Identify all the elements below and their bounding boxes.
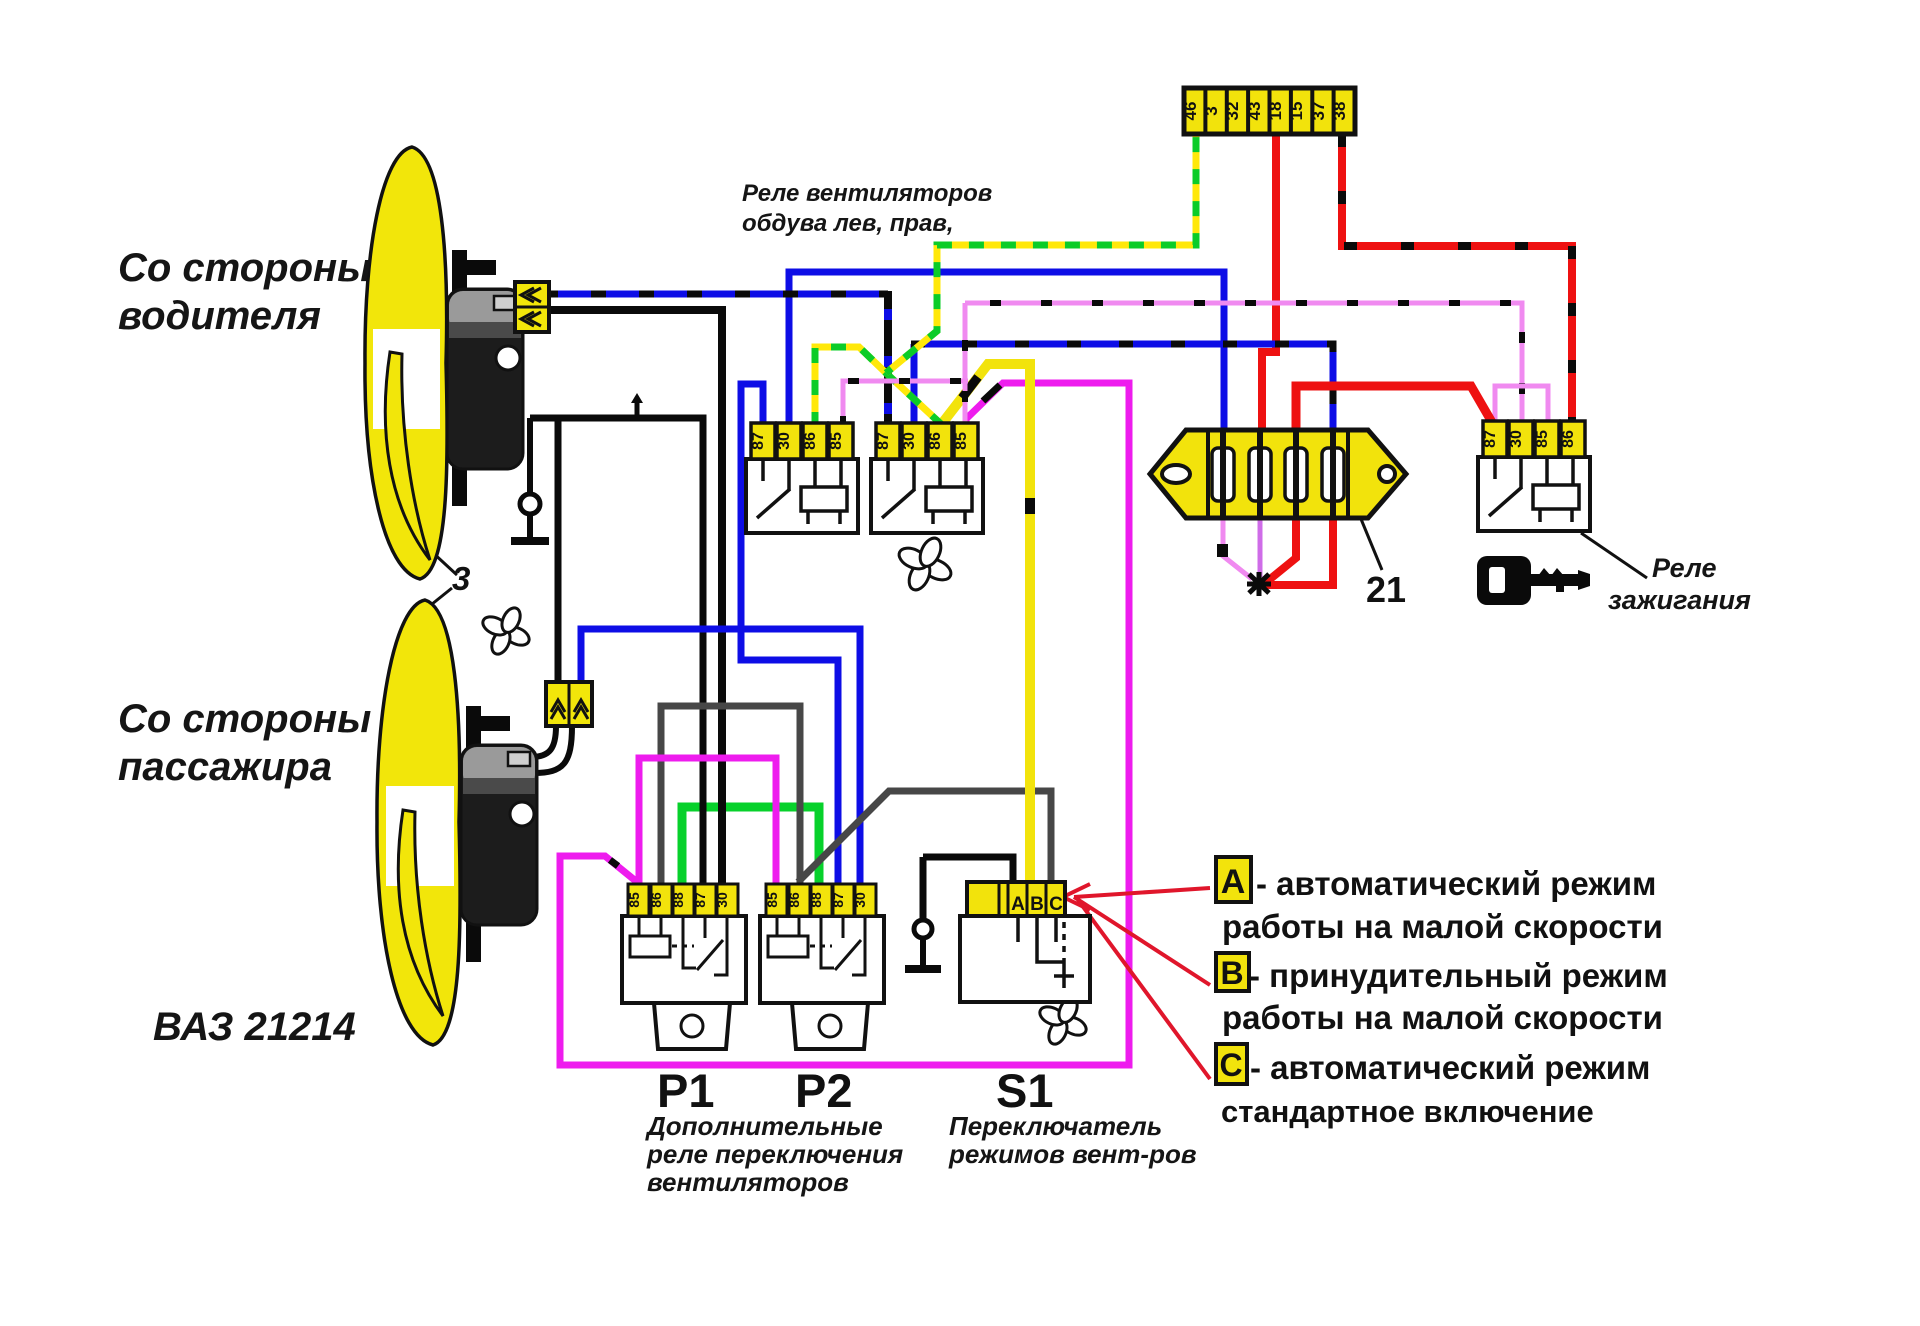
fan icon below relay2 (896, 535, 954, 593)
red legend arrows (1063, 884, 1210, 1079)
svg-text:3: 3 (1202, 106, 1221, 115)
svg-text:Со стороны: Со стороны (118, 246, 371, 290)
svg-text:85: 85 (764, 892, 780, 908)
svg-text:85: 85 (1534, 430, 1551, 448)
svg-text:88: 88 (808, 892, 824, 908)
svg-text:B: B (1220, 955, 1243, 991)
svg-text:- автоматический режим: - автоматический режим (1250, 1049, 1650, 1086)
svg-text:S1: S1 (996, 1064, 1054, 1117)
svg-text:87: 87 (692, 892, 708, 908)
svg-text:C: C (1049, 894, 1063, 915)
svg-text:стандартное включение: стандартное включение (1221, 1094, 1594, 1129)
svg-text:режимов вент-ров: режимов вент-ров (948, 1139, 1197, 1169)
wire: red fuse F4 bottom to junction (1264, 517, 1333, 585)
wire: yellow-green dashed feed from connector X1 pin46 (886, 134, 1196, 373)
svg-text:C: C (1219, 1047, 1242, 1083)
svg-text:A: A (1011, 894, 1025, 915)
wire: violet fuse F2 bottom to junction (1258, 517, 1263, 577)
svg-text:P1: P1 (657, 1064, 715, 1117)
svg-text:30: 30 (714, 892, 730, 908)
svg-text:реле переключения: реле переключения (646, 1139, 903, 1169)
svg-text:46: 46 (1181, 102, 1200, 121)
ground G1 symbol (527, 418, 533, 493)
fan M2 motor (461, 745, 537, 925)
svg-text:86: 86 (648, 892, 664, 908)
fuse F4 (1322, 431, 1344, 517)
fuse F1 (1212, 431, 1234, 517)
ignition key icon (1477, 556, 1590, 605)
svg-text:Со стороны: Со стороны (118, 697, 371, 741)
svg-text:работы на малой скорости: работы на малой скорости (1222, 908, 1663, 945)
ignition relay K3 (1478, 421, 1590, 531)
svg-text:43: 43 (1245, 102, 1264, 121)
svg-text:18: 18 (1266, 102, 1285, 121)
callout line fuse block 21 (1361, 519, 1382, 570)
svg-text:87: 87 (875, 432, 892, 450)
svg-text:30: 30 (776, 432, 793, 450)
wire: black fan M2 riser to ground net (555, 418, 562, 686)
svg-text:обдува лев, прав,: обдува лев, прав, (742, 210, 954, 237)
wire: blue-black dashed fan M1 feed to relay2 pin87 (549, 291, 888, 298)
wire: violet dashed node V to ignition relay K3 (965, 303, 1522, 423)
svg-text:Реле вентиляторов: Реле вентиляторов (742, 180, 992, 207)
wire: blue fan M2 connector to relay P2 pin30 (581, 629, 860, 884)
connector X1 strip (1181, 88, 1355, 134)
svg-text:38: 38 (1330, 102, 1349, 121)
wire: black switch S1 pin A to ground G2 (923, 857, 1013, 884)
svg-text:30: 30 (852, 892, 868, 908)
wire: gray P2 pin86 to switch S1 pin C (798, 791, 1051, 884)
legend box B (1216, 953, 1249, 991)
junction star node (1247, 572, 1271, 596)
wire: pink fuse F1 bottom to junction (1223, 517, 1252, 579)
fan M1 connector (515, 282, 549, 332)
svg-text:- принудительный режим: - принудительный режим (1249, 957, 1668, 994)
switch S1 (960, 882, 1090, 1002)
wire: blue-black dashed relay2 pin30 to fuse F4 (911, 344, 1333, 432)
svg-text:Переключатель: Переключатель (949, 1111, 1162, 1141)
svg-text:87: 87 (1482, 430, 1499, 448)
svg-text:вентиляторов: вентиляторов (647, 1167, 849, 1197)
wire: red fuse F3 bottom to junction (1264, 517, 1296, 584)
wire: violet dashed node V riser to relay2 pin85 (963, 303, 968, 427)
callout line ignition relay (1581, 533, 1647, 578)
fan M1 motor (447, 289, 523, 469)
relay K2 (fan blower relay right) (871, 423, 983, 533)
svg-text:86: 86 (786, 892, 802, 908)
fuse block 21 (1150, 430, 1406, 518)
fan M1 (driver side) blade (365, 147, 447, 579)
svg-text:88: 88 (670, 892, 686, 908)
svg-text:30: 30 (1508, 430, 1525, 448)
wire: red fuse F3 to ignition relay pin87 (1296, 386, 1493, 432)
svg-text:B: B (1030, 894, 1044, 915)
svg-text:85: 85 (828, 432, 845, 450)
svg-text:ВАЗ 21214: ВАЗ 21214 (153, 1005, 356, 1049)
wire: black fan M1 to relay P1 pin30 (549, 310, 722, 884)
relay P2 (760, 884, 884, 1049)
wire: black fan M2 motor cables (531, 726, 556, 757)
svg-text:работы на малой скорости: работы на малой скорости (1222, 999, 1663, 1036)
svg-text:Реле: Реле (1652, 553, 1716, 583)
svg-text:зажигания: зажигания (1608, 585, 1751, 615)
wire: yellow switch S1 pin B to relay2 pin86 (944, 364, 1030, 884)
svg-text:85: 85 (626, 892, 642, 908)
wire: magenta bridge P1 pin85 to P2 pin85 (639, 758, 776, 884)
svg-text:21: 21 (1366, 569, 1406, 610)
svg-text:86: 86 (927, 432, 944, 450)
wire: blue relay1 pin87 hook down to relay P2 pin87 (741, 384, 838, 884)
relay P1 (622, 884, 746, 1049)
legend box A (1216, 857, 1251, 902)
svg-text:- автоматический режим: - автоматический режим (1256, 865, 1656, 902)
svg-text:86: 86 (802, 432, 819, 450)
svg-text:30: 30 (901, 432, 918, 450)
wire: green bridge P1 pin88 to P2 pin88 (682, 807, 819, 884)
fan M2 (passenger side) blade (377, 600, 460, 1045)
relay K1 (fan blower relay left) (746, 423, 858, 533)
wire: gray bridge P1 pin86 to P2 pin86 (661, 706, 800, 884)
wire: blue relay2 pin30 riser (911, 344, 918, 459)
svg-text:86: 86 (1560, 430, 1577, 448)
fan icon below S1 (1037, 995, 1089, 1047)
fan M1 motor mount (452, 250, 496, 506)
svg-text:32: 32 (1223, 102, 1242, 121)
wire: black ground net to relay P1 pin87 (530, 418, 703, 884)
wire: violet bridge at ignition relay pins (1495, 386, 1548, 423)
svg-text:P2: P2 (795, 1064, 853, 1117)
fan icon between fans (480, 605, 532, 657)
wire: red connector X1 pin18 to fuse F2 (1262, 134, 1276, 432)
svg-text:87: 87 (830, 892, 846, 908)
wire: magenta loop P1 pin85 to relay2 pin85 (560, 383, 1129, 1065)
svg-text:Дополнительные: Дополнительные (645, 1111, 883, 1141)
wire: yellow-green dashed relay1 pin86 to relay2 pin86 (815, 347, 941, 427)
ground G2 symbol (920, 857, 927, 920)
svg-text:15: 15 (1287, 102, 1306, 121)
junction tick on ground net (635, 400, 640, 418)
callout lines label 3 (431, 551, 457, 575)
svg-text:3: 3 (452, 560, 470, 597)
svg-text:A: A (1221, 863, 1246, 901)
svg-text:пассажира: пассажира (118, 745, 332, 789)
svg-text:водителя: водителя (118, 294, 321, 338)
wire: red-black dashed connector X1 pin38 to ignition relay pin86 (1342, 134, 1572, 423)
wire: violet dashed relay1 pin85 to node V (843, 381, 968, 427)
fan M2 connector (546, 682, 592, 726)
svg-text:87: 87 (750, 432, 767, 450)
fan M2 motor mount (466, 706, 510, 962)
svg-text:37: 37 (1309, 102, 1328, 121)
svg-text:85: 85 (953, 432, 970, 450)
wire: blue feed relay1 pin30 to fuse F1 (789, 272, 1224, 459)
fuse F3 (1285, 431, 1307, 517)
fuse F2 (1249, 431, 1271, 517)
legend box C (1216, 1044, 1247, 1084)
